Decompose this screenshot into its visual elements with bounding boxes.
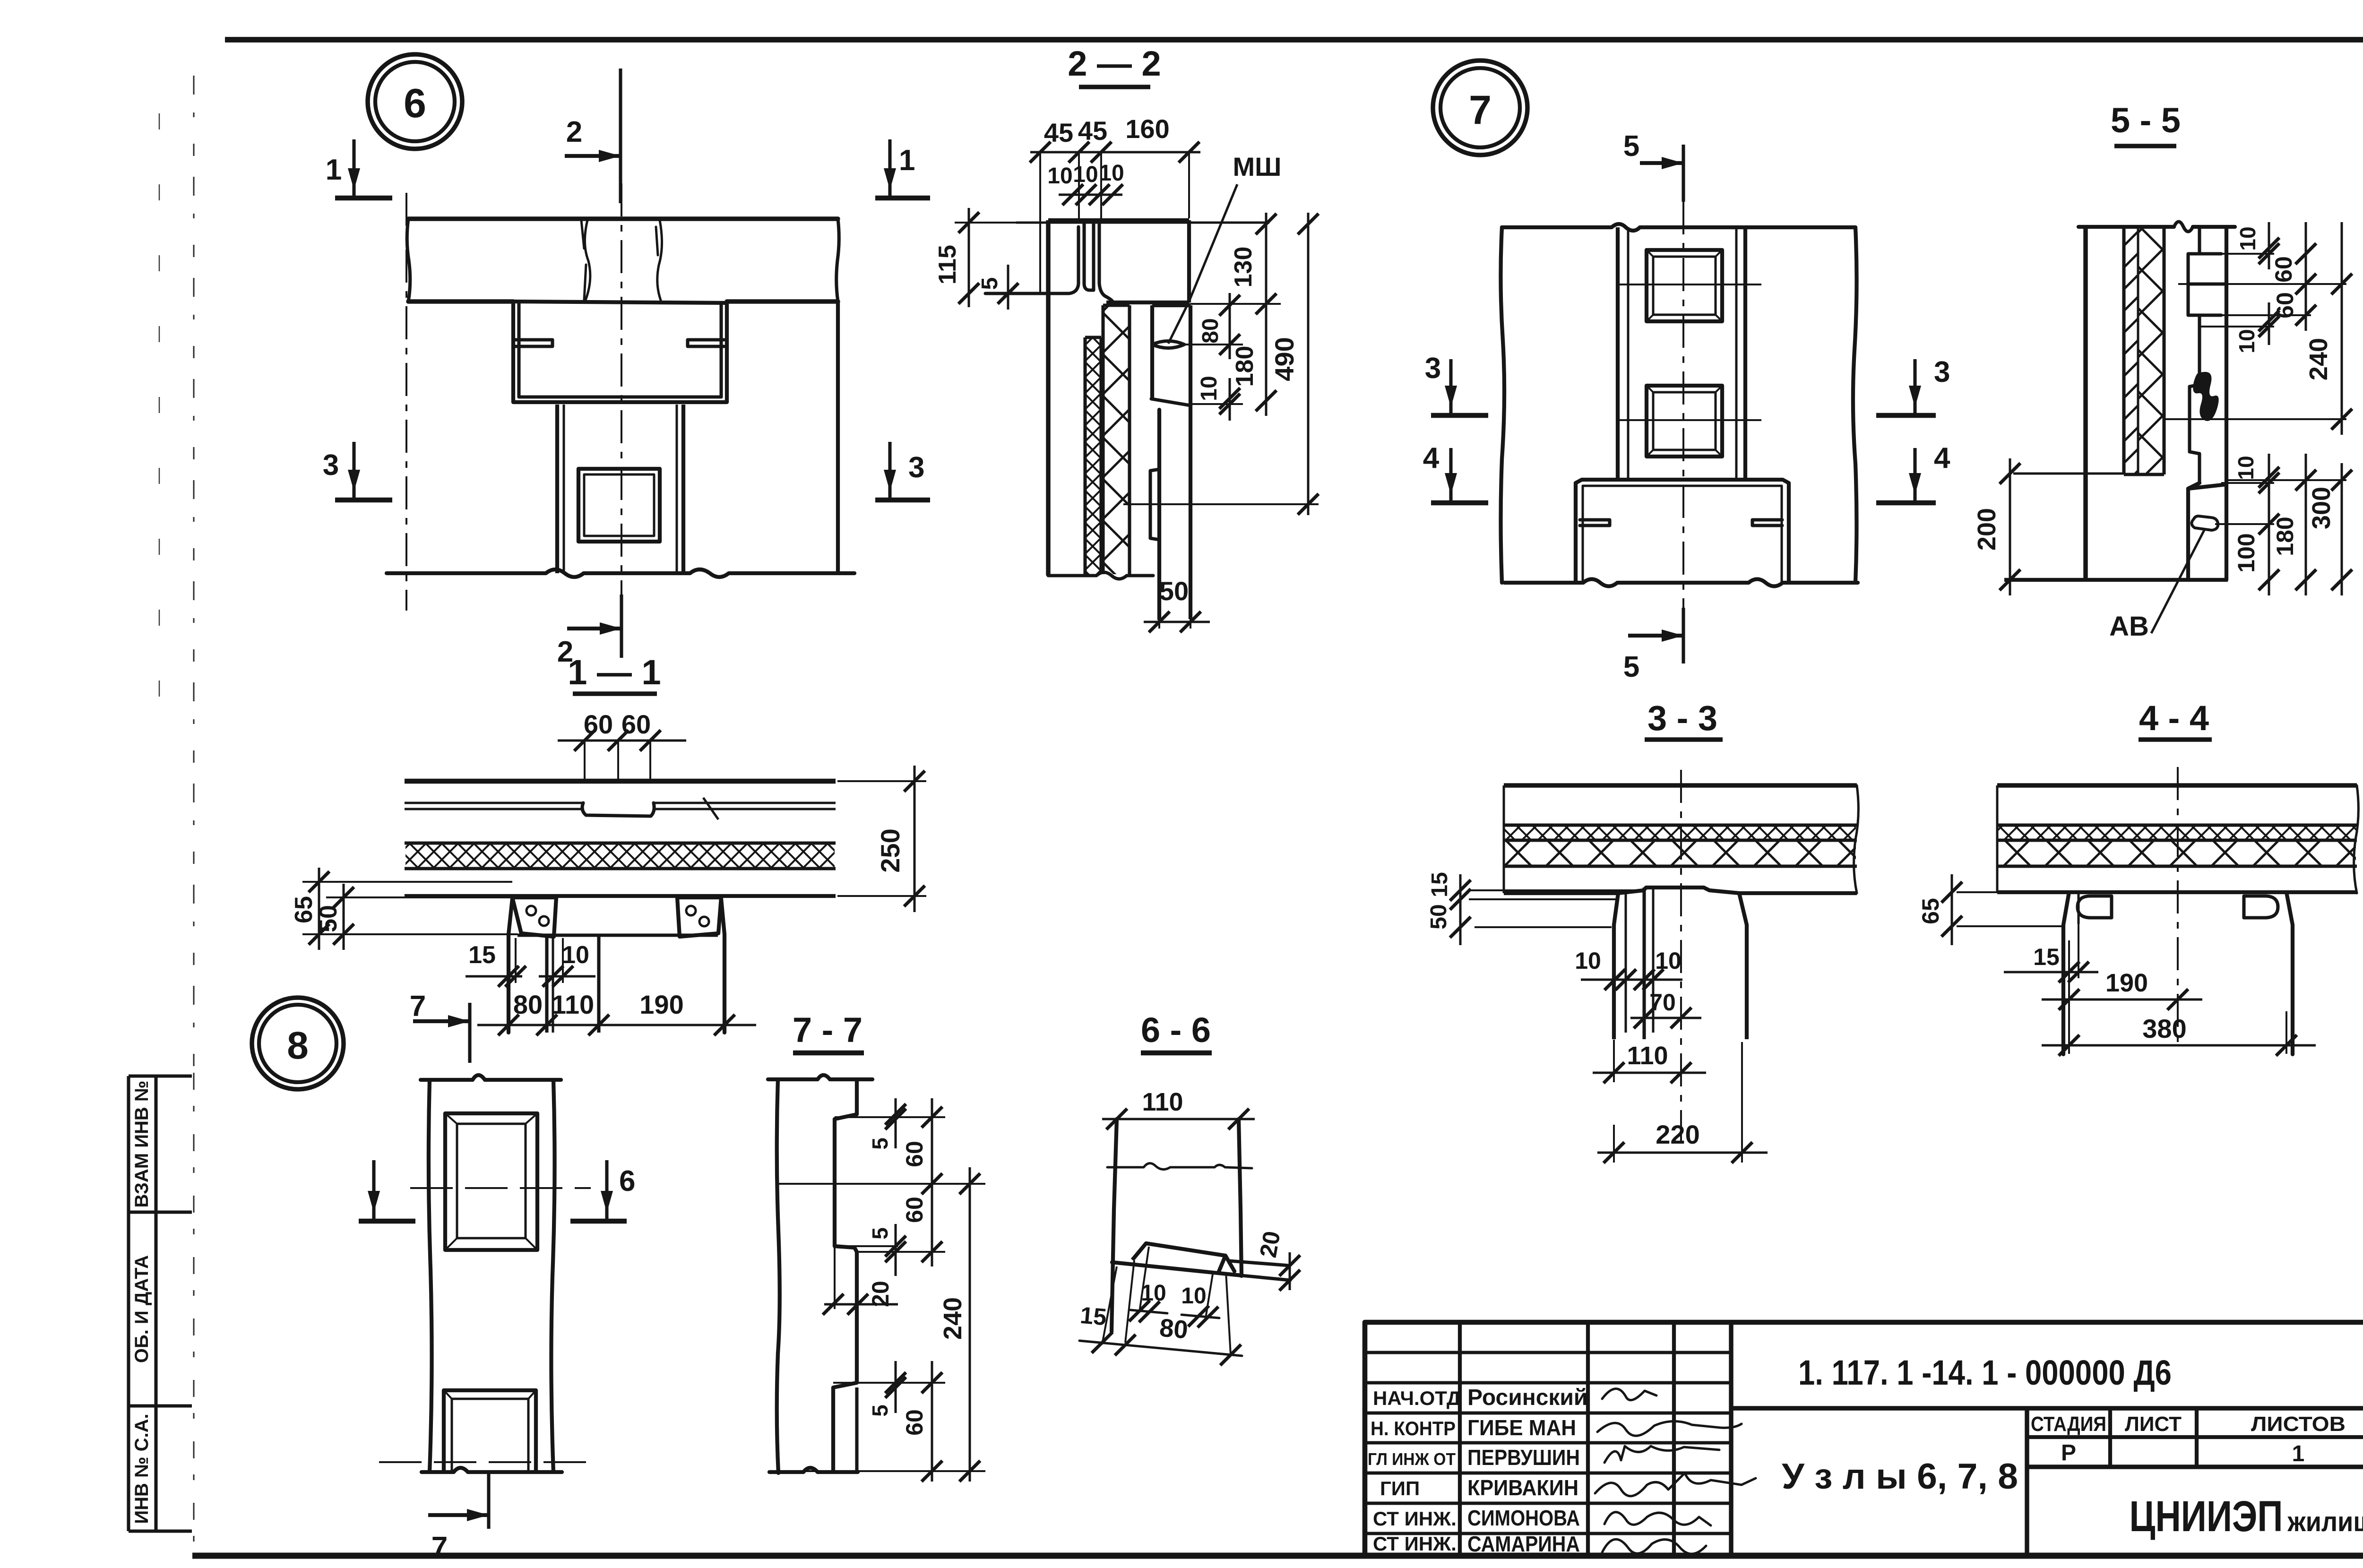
section 3-3 wall joint lines bbox=[1625, 893, 1627, 1033]
detail 7 centre axis 5-5 bbox=[1682, 145, 1684, 663]
section 7-7 wall top edge bbox=[768, 1075, 872, 1079]
detail 8 opening 2 inner bbox=[452, 1399, 528, 1472]
sheet border bottom bbox=[192, 1553, 2363, 1559]
detail 6 slab left end bbox=[407, 219, 410, 302]
detail 8 opening 1 inner bbox=[457, 1124, 526, 1238]
section 5-5 insulation crosshatch strip bbox=[2162, 227, 2165, 474]
svg-text:СТ ИНЖ.: СТ ИНЖ. bbox=[1373, 1533, 1457, 1555]
svg-text:70: 70 bbox=[1649, 989, 1676, 1016]
detail 8 wall left face bbox=[429, 1080, 432, 1472]
detail 8 opening 1 centreline bbox=[410, 1187, 591, 1189]
section 3-3 insulation band bbox=[1504, 864, 1857, 868]
svg-text:Н. КОНТР: Н. КОНТР bbox=[1371, 1417, 1456, 1439]
section 2-2 insulation strip narrow bbox=[1083, 337, 1087, 574]
svg-text:1 — 1: 1 — 1 bbox=[568, 653, 661, 692]
svg-text:4: 4 bbox=[1423, 442, 1440, 474]
detail 7 outer block right edge bbox=[1853, 227, 1857, 583]
section 5-5 lower block bbox=[2188, 483, 2226, 580]
section 1-1 wall right face bbox=[721, 899, 724, 1033]
detail 7 outer block left edge bbox=[1501, 227, 1504, 583]
detail 7 opening 2 centreline bbox=[1617, 419, 1761, 421]
section 7-7 wall bottom edge bbox=[769, 1468, 858, 1472]
section 3-3 dense screed band bbox=[1504, 823, 1857, 827]
section marker 2 top of detail 6 bbox=[619, 69, 622, 203]
svg-text:3: 3 bbox=[323, 449, 339, 482]
section 5-5 dim 60 60 bbox=[2178, 283, 2346, 285]
svg-text:50: 50 bbox=[315, 905, 342, 932]
section 2-2 upper panel bottom edge right part bbox=[1106, 301, 1188, 304]
section 4-4 wall head sides bbox=[2063, 892, 2069, 1054]
detail 8 wall top edge bbox=[421, 1075, 561, 1080]
section 7-7 edge profile bbox=[833, 1079, 857, 1471]
svg-text:110: 110 bbox=[552, 990, 594, 1019]
section 2-2 lower panel inner face bbox=[1157, 410, 1161, 619]
svg-text:1: 1 bbox=[899, 144, 915, 177]
svg-text:НАЧ.ОТД: НАЧ.ОТД bbox=[1373, 1387, 1461, 1409]
svg-text:10: 10 bbox=[1197, 376, 1222, 401]
section 3-3 slab right end bbox=[1854, 785, 1859, 893]
section 6-6 strip left edge bbox=[1112, 1119, 1117, 1332]
detail 8 wall right face bbox=[551, 1080, 554, 1472]
svg-text:130: 130 bbox=[1230, 247, 1257, 288]
svg-text:ОБ. И ДАТА: ОБ. И ДАТА bbox=[131, 1255, 152, 1363]
section 4-4 axis line bbox=[2177, 767, 2179, 1045]
section 4-4 insulation band bbox=[1997, 864, 2357, 868]
section marker 6 right of detail 8 bbox=[570, 1219, 627, 1224]
signature Симонова bbox=[1604, 1512, 1711, 1525]
svg-text:5: 5 bbox=[868, 1227, 892, 1240]
svg-text:ИНВ № С.А.: ИНВ № С.А. bbox=[131, 1413, 152, 1524]
section 5-5 dim 10 top bbox=[2193, 253, 2274, 255]
sheet left margin microtext line bbox=[193, 76, 195, 1073]
svg-text:10: 10 bbox=[562, 941, 589, 969]
section 1-1 insulation crosshatch bbox=[405, 844, 835, 868]
section marker 6 left of detail 8 bbox=[359, 1219, 415, 1224]
section 2-2 upper panel right face bbox=[1187, 220, 1191, 302]
signature Первушин bbox=[1604, 1446, 1719, 1463]
svg-text:50: 50 bbox=[1426, 904, 1451, 929]
svg-text:115: 115 bbox=[934, 245, 961, 284]
svg-text:110: 110 bbox=[1142, 1088, 1183, 1116]
section 6-6 extension lines bbox=[1125, 1260, 1134, 1343]
section 2-2 lower panel notch bottom bbox=[1151, 399, 1190, 405]
section 4-4 hook recess left bbox=[2078, 896, 2112, 918]
detail 7 opening 1 centreline bbox=[1617, 284, 1761, 285]
section marker 5 bottom of detail 7 bbox=[1682, 608, 1685, 663]
svg-text:10: 10 bbox=[1099, 161, 1124, 186]
svg-text:15: 15 bbox=[2033, 944, 2060, 970]
section 2-2 insulation strip wide bbox=[1101, 305, 1104, 574]
svg-text:7 - 7: 7 - 7 bbox=[793, 1010, 862, 1050]
section 1-1 dim 65 left bbox=[302, 881, 512, 883]
section marker 7 bottom of detail 8 bbox=[487, 1474, 490, 1529]
section 7-7 wall left edge bbox=[777, 1079, 780, 1473]
detail 6 wall widened head inner lines bbox=[519, 303, 721, 397]
detail 6 ground line bbox=[387, 569, 854, 577]
svg-text:240: 240 bbox=[2304, 338, 2333, 380]
section 3-3 dim 15 50 left bbox=[1469, 889, 1644, 891]
section 6-6 key top edge bbox=[1146, 1243, 1225, 1256]
svg-text:5: 5 bbox=[868, 1137, 892, 1150]
svg-text:10: 10 bbox=[2234, 329, 2259, 353]
svg-text:ПЕРВУШИН: ПЕРВУШИН bbox=[1467, 1445, 1580, 1470]
detail 6 slab panel joint lines bbox=[581, 220, 590, 300]
svg-text:Р: Р bbox=[2061, 1440, 2076, 1465]
section 7-7 dim 5 bottom bbox=[833, 1382, 945, 1384]
svg-text:6 - 6: 6 - 6 bbox=[1141, 1010, 1211, 1050]
detail 6 slab right end bbox=[837, 219, 839, 302]
section 4-4 chamfer line left bbox=[2078, 892, 2080, 924]
section 1-1 insulation bottom line bbox=[405, 867, 836, 870]
detail 7 cross wall right face bbox=[1735, 227, 1738, 480]
section 5-5 panel edge below tooth bbox=[2198, 315, 2201, 385]
section marker 3 right of detail 7 bbox=[1876, 413, 1936, 418]
section 3-3 wall head profile bbox=[1618, 887, 1739, 893]
section 5-5 dim 200 left bbox=[2009, 458, 2011, 595]
detail 6 floor slab top edge bbox=[408, 216, 838, 221]
detail 7 outer block bottom edge bbox=[1504, 579, 1858, 586]
svg-text:10: 10 bbox=[1141, 1281, 1166, 1306]
section 1-1 wall joint lines bbox=[545, 937, 548, 1033]
svg-text:СТАДИЯ: СТАДИЯ bbox=[2031, 1413, 2106, 1436]
section 7-7 dim 20 bbox=[824, 1303, 898, 1306]
signature Самарина bbox=[1602, 1539, 1706, 1554]
detail 7 widened base inner lines bbox=[1583, 486, 1782, 583]
detail 8 opening 2 corner bevels bbox=[444, 1390, 452, 1399]
section 7-7 dim 5 top bbox=[835, 1116, 945, 1118]
svg-text:6: 6 bbox=[619, 1165, 635, 1198]
svg-text:300: 300 bbox=[2307, 487, 2336, 529]
section marker 1 left of detail 6 bbox=[335, 196, 392, 201]
section 5-5 dim 180 bbox=[2226, 479, 2346, 481]
svg-text:200: 200 bbox=[1973, 508, 2001, 551]
svg-text:20: 20 bbox=[867, 1281, 894, 1307]
section 2-2 upper panel bottom lip bbox=[985, 227, 1078, 293]
detail 6 bubble bbox=[368, 54, 462, 149]
section 1-1 floor top line bbox=[405, 779, 836, 784]
detail 6 centre axis 2-2 bbox=[621, 183, 622, 656]
detail 7 opening 2 outer bbox=[1647, 386, 1722, 457]
section 7-7 dim 60 top bbox=[931, 1098, 933, 1266]
title block vertical lines bbox=[1458, 1322, 1462, 1556]
svg-text:ГИП: ГИП bbox=[1380, 1477, 1420, 1499]
section 6-6 strip right edge bbox=[1239, 1119, 1242, 1276]
svg-text:10: 10 bbox=[2234, 456, 2258, 480]
svg-text:190: 190 bbox=[2105, 969, 2148, 997]
section 2-2 mastic lens МШ bbox=[1152, 341, 1184, 348]
section marker 3 left of detail 7 bbox=[1431, 413, 1488, 418]
svg-text:60: 60 bbox=[901, 1197, 928, 1223]
svg-text:3 - 3: 3 - 3 bbox=[1647, 698, 1717, 738]
detail 7 base key slot right bbox=[1752, 520, 1782, 526]
svg-text:2: 2 bbox=[566, 116, 582, 148]
section 2-2 lower panel top edge bbox=[1152, 303, 1190, 307]
svg-text:10: 10 bbox=[1047, 164, 1072, 189]
svg-text:180: 180 bbox=[2272, 517, 2298, 556]
title block horizontal row lines bbox=[1365, 1351, 1731, 1354]
left stamp table frame bbox=[127, 1076, 130, 1531]
section 2-2 level line 490 bottom bbox=[1123, 503, 1319, 505]
detail 6 floor slab bottom edge bbox=[408, 299, 838, 303]
svg-text:2 — 2: 2 — 2 bbox=[1068, 44, 1161, 83]
svg-text:3: 3 bbox=[908, 451, 924, 484]
section 7-7 level line bottom bbox=[769, 1470, 985, 1472]
svg-text:5: 5 bbox=[1623, 130, 1639, 163]
svg-text:ЦНИИЭП: ЦНИИЭП bbox=[2130, 1492, 2283, 1541]
section 5-5 insulation diagonal strip bbox=[2122, 227, 2125, 474]
section 5-5 dim 10 lower step bbox=[2221, 482, 2274, 484]
svg-text:250: 250 bbox=[875, 828, 905, 872]
detail 6 lower wall right face bbox=[676, 405, 678, 573]
section 7-7 dim 5 middle bbox=[835, 1245, 898, 1247]
svg-text:190: 190 bbox=[639, 990, 683, 1019]
section 1-1 wall left face bbox=[509, 899, 512, 1033]
svg-text:1: 1 bbox=[326, 154, 342, 186]
detail 7 widened base outline bbox=[1576, 480, 1789, 583]
svg-text:60: 60 bbox=[901, 1409, 928, 1436]
section 5-5 panel edge top tooth bbox=[2188, 227, 2226, 315]
svg-text:10: 10 bbox=[1655, 948, 1682, 974]
section 4-4 slab right end bbox=[2354, 785, 2359, 893]
section 2-2 dim 490 bbox=[1307, 213, 1310, 515]
section 2-2 upper panel left face bbox=[1046, 220, 1050, 576]
section 1-1 right pad dowels bbox=[686, 906, 696, 915]
svg-text:8: 8 bbox=[287, 1024, 309, 1067]
section 5-5 panel edge sealant bracket bbox=[2190, 385, 2199, 483]
svg-text:65: 65 bbox=[1917, 898, 1944, 924]
section 3-3 slab left end bbox=[1503, 785, 1505, 893]
svg-text:Росинский: Росинский bbox=[1467, 1385, 1587, 1410]
svg-text:15: 15 bbox=[1079, 1302, 1107, 1331]
section marker 4 left of detail 7 bbox=[1431, 500, 1488, 506]
svg-text:15: 15 bbox=[1427, 872, 1452, 897]
svg-text:160: 160 bbox=[1125, 114, 1169, 144]
svg-text:180: 180 bbox=[1231, 346, 1259, 387]
section 5-5 insulation bottom bbox=[2124, 473, 2164, 476]
section 4-4 hook recess right bbox=[2244, 896, 2278, 918]
section 5-5 dim 240 bbox=[2164, 418, 2346, 420]
section 5-5 wall outer face bbox=[2083, 227, 2087, 580]
section 7-7 dim 60 bottom bbox=[931, 1361, 933, 1482]
svg-text:110: 110 bbox=[1627, 1042, 1668, 1070]
section 2-2 lower panel interior face bbox=[1189, 305, 1192, 619]
svg-text:жилища: жилища bbox=[2287, 1507, 2363, 1537]
section 5-5 AB leader line bbox=[2151, 528, 2205, 633]
section 6-6 strip bottom edge bbox=[1112, 1262, 1242, 1275]
svg-text:7: 7 bbox=[431, 1531, 448, 1564]
section 1-1 left corbel pad bbox=[512, 897, 556, 937]
svg-text:ЛИСТОВ: ЛИСТОВ bbox=[2251, 1413, 2346, 1436]
svg-text:ГИБЕ МАН: ГИБЕ МАН bbox=[1467, 1415, 1576, 1440]
section 3-3 slab top line bbox=[1504, 783, 1857, 787]
section 7-7 inner face lower bbox=[855, 1387, 858, 1471]
section 6-6 key right end bbox=[1218, 1256, 1234, 1273]
svg-text:45: 45 bbox=[1078, 116, 1107, 146]
svg-text:АВ: АВ bbox=[2109, 611, 2149, 642]
svg-text:7: 7 bbox=[410, 990, 426, 1023]
svg-text:65: 65 bbox=[290, 896, 318, 923]
svg-text:3: 3 bbox=[1425, 352, 1441, 385]
section 2-2 joint prongs bbox=[1084, 223, 1094, 290]
svg-text:10: 10 bbox=[1181, 1284, 1206, 1309]
section 4-4 slab top line bbox=[1997, 783, 2357, 787]
section 4-4 slab left end bbox=[1996, 785, 1999, 892]
section 4-4 ceiling line bbox=[1997, 890, 2069, 894]
svg-text:5: 5 bbox=[868, 1404, 892, 1417]
section marker 1 right of detail 6 bbox=[875, 196, 930, 201]
section 5-5 anchor AB pill bbox=[2191, 516, 2218, 530]
sheet border top bbox=[225, 37, 2363, 43]
section 4-4 wall head top bbox=[2069, 890, 2286, 894]
section 6-6 edge tail 20 bbox=[1229, 1261, 1290, 1280]
detail 7 base key slot left bbox=[1580, 520, 1610, 526]
section 3-3 ceiling line bbox=[1504, 891, 1618, 895]
section 5-5 wall step line 200 level bbox=[2013, 473, 2124, 475]
detail 6 wall widened head outline bbox=[513, 303, 727, 402]
section 2-2 dim 80 bbox=[1184, 344, 1243, 345]
detail 7 opening 1 inner bbox=[1653, 257, 1716, 315]
section 7-7 level line top bbox=[778, 1183, 985, 1185]
svg-text:СИМОНОВА: СИМОНОВА bbox=[1467, 1506, 1580, 1530]
svg-text:50: 50 bbox=[1159, 576, 1189, 606]
svg-text:5 - 5: 5 - 5 bbox=[2111, 101, 2181, 140]
title block outer frame bbox=[1365, 1322, 2363, 1556]
svg-text:7: 7 bbox=[1469, 87, 1492, 133]
section 2-2 dim 130 bbox=[1190, 303, 1281, 305]
detail 7 outer block top edge bbox=[1502, 224, 1855, 231]
svg-text:60: 60 bbox=[901, 1141, 928, 1167]
signature Кривакин bbox=[1595, 1473, 1756, 1496]
section 1-1 screed lines bbox=[405, 802, 583, 804]
section 2-2 МШ leader line bbox=[1189, 184, 1237, 302]
svg-text:6: 6 bbox=[404, 81, 426, 126]
detail 7 opening 2 corner bevels bbox=[1647, 386, 1653, 392]
signature Гибеман bbox=[1597, 1421, 1742, 1436]
svg-text:15: 15 bbox=[468, 941, 496, 969]
detail 8 opening 2 outer bbox=[444, 1390, 536, 1472]
detail 6 axis line vertical left bbox=[405, 193, 407, 611]
section 2-2 lower panel notch face bbox=[1150, 305, 1154, 398]
section 5-5 dim 10 below tooth bbox=[2199, 326, 2274, 327]
section 5-5 panel interior face bbox=[2225, 227, 2228, 484]
svg-text:10: 10 bbox=[1575, 948, 1601, 974]
section 3-3 wall right face bbox=[1745, 925, 1749, 1039]
section 1-1 dim 250 right bbox=[837, 780, 926, 782]
svg-text:3: 3 bbox=[1934, 356, 1950, 388]
section 5-5 dim 300 bbox=[2341, 463, 2343, 595]
svg-text:20: 20 bbox=[1255, 1229, 1285, 1260]
detail 7 bubble bbox=[1433, 60, 1527, 155]
detail 7 opening 1 corner bevels bbox=[1647, 250, 1653, 257]
section marker 3 left of detail 6 bbox=[335, 498, 392, 503]
svg-text:1. 117. 1 -14. 1 - 000000: 1. 117. 1 -14. 1 - 000000 Д6 bbox=[1798, 1353, 2172, 1392]
section 3-3 wall left face bbox=[1612, 925, 1616, 1039]
section marker 3 right of detail 6 bbox=[875, 498, 930, 503]
section 6-6 key left slant bbox=[1132, 1243, 1146, 1260]
section 6-6 dim 20 bbox=[1289, 1252, 1291, 1290]
detail 7 opening 2 inner bbox=[1653, 392, 1716, 450]
svg-text:ГЛ ИНЖ ОТ: ГЛ ИНЖ ОТ bbox=[1368, 1449, 1456, 1469]
section 2-2 dim 115 bbox=[955, 222, 1048, 224]
section 2-2 connection hook bbox=[1150, 469, 1159, 540]
section 5-5 sealant blob bbox=[2193, 372, 2218, 421]
detail 6 key slot left bbox=[515, 340, 552, 346]
svg-text:СТ ИНЖ.: СТ ИНЖ. bbox=[1373, 1508, 1457, 1530]
svg-text:1: 1 bbox=[2292, 1441, 2305, 1466]
section 6-6 break line bbox=[1107, 1163, 1252, 1169]
svg-text:КРИВАКИН: КРИВАКИН bbox=[1467, 1475, 1578, 1500]
signature Росинский bbox=[1602, 1389, 1656, 1400]
section 3-3 axis line bbox=[1680, 770, 1682, 1153]
svg-text:240: 240 bbox=[939, 1297, 967, 1340]
section 1-1 ceiling line bbox=[405, 894, 836, 898]
section 7-7 dim 240 bbox=[969, 1167, 971, 1482]
svg-text:60: 60 bbox=[2270, 256, 2297, 283]
detail 6 doorway opening inner bbox=[584, 474, 654, 536]
section marker 7 top of detail 8 bbox=[468, 1003, 471, 1063]
svg-text:80: 80 bbox=[1198, 318, 1223, 343]
detail 7 cross wall left face bbox=[1616, 227, 1620, 480]
detail 8 wall bottom edge bbox=[422, 1468, 562, 1472]
section marker 2 bottom of detail 6 bbox=[620, 594, 623, 658]
svg-text:4 - 4: 4 - 4 bbox=[2139, 698, 2209, 738]
svg-text:ВЗАМ ИНВ №: ВЗАМ ИНВ № bbox=[131, 1081, 152, 1208]
detail 6 doorway opening outer bbox=[578, 469, 660, 542]
section 1-1 left pad dowels bbox=[526, 906, 536, 915]
section 1-1 weld mark bbox=[703, 798, 718, 819]
detail 8 opening 1 corner bevels bbox=[445, 1113, 457, 1124]
section 5-5 dim 100 bbox=[2215, 523, 2274, 525]
section 5-5 wall top edge bbox=[2078, 225, 2235, 229]
section 1-1 insulation top line bbox=[405, 841, 836, 844]
detail 6 key slot right bbox=[688, 340, 724, 346]
svg-text:490: 490 bbox=[1269, 337, 1299, 381]
section 7-7 groove face extension bbox=[834, 1246, 836, 1309]
section 4-4 dense screed band bbox=[1997, 823, 2357, 827]
svg-text:У з л ы 6, 7, 8: У з л ы 6, 7, 8 bbox=[1782, 1456, 2018, 1497]
svg-text:60: 60 bbox=[584, 709, 613, 739]
detail 8 lower centreline bbox=[379, 1461, 587, 1463]
detail 6 lower wall left face bbox=[555, 405, 559, 573]
section 5-5 wall bottom edge bbox=[2004, 578, 2228, 582]
svg-text:10: 10 bbox=[2235, 226, 2260, 250]
svg-text:100: 100 bbox=[2233, 533, 2260, 572]
svg-text:САМАРИНА: САМАРИНА bbox=[1467, 1532, 1580, 1556]
section 2-2 bottom cut line bbox=[1048, 572, 1153, 579]
svg-text:МШ: МШ bbox=[1233, 152, 1282, 181]
left margin tiny annotations bbox=[159, 113, 160, 129]
section 1-1 dim 50 left bbox=[343, 884, 345, 950]
svg-text:5: 5 bbox=[1623, 651, 1639, 683]
svg-text:ЛИСТ: ЛИСТ bbox=[2125, 1413, 2182, 1436]
detail 7 opening 1 outer bbox=[1647, 250, 1722, 321]
section 2-2 dim 10 bbox=[1190, 403, 1243, 405]
detail 8 bubble bbox=[252, 998, 344, 1089]
svg-text:220: 220 bbox=[1656, 1120, 1699, 1149]
section marker 5 top of detail 7 bbox=[1682, 145, 1685, 202]
svg-text:10: 10 bbox=[1073, 162, 1098, 187]
section 1-1 right corbel pad bbox=[677, 897, 721, 937]
svg-text:4: 4 bbox=[1934, 442, 1950, 474]
section 1-1 screed slot bbox=[582, 803, 654, 816]
section 2-2 dim 5 bbox=[1007, 265, 1009, 310]
svg-text:380: 380 bbox=[2142, 1014, 2186, 1043]
section 4-4 dim 65 left bbox=[1957, 891, 2063, 893]
section 1-1 wall top joint line bbox=[517, 933, 718, 937]
section 2-2 upper panel top edge bbox=[1016, 222, 1269, 224]
section marker 4 right of detail 7 bbox=[1876, 500, 1936, 506]
svg-text:5: 5 bbox=[977, 277, 1002, 290]
